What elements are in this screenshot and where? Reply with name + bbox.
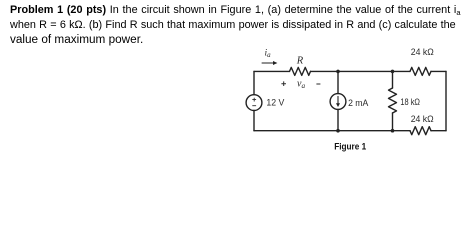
wire: 18k branch top stub xyxy=(392,71,394,88)
wire: top-left segment from source top to resistor R xyxy=(254,70,290,72)
resistor 18 kOhm (vertical zigzag) xyxy=(389,88,397,113)
svg-text:R: R xyxy=(296,56,304,67)
wire: top middle segment from R to node A and node B xyxy=(311,70,411,72)
wire: left side below voltage source xyxy=(253,111,255,131)
svg-text:Figure 1: Figure 1 xyxy=(334,142,366,152)
label: - polarity of v_a xyxy=(316,83,320,85)
wire: bottom-right corner segment xyxy=(431,130,446,132)
wire: left side above voltage source xyxy=(253,71,255,94)
problem statement text xyxy=(10,3,461,49)
svg-text:18 kΩ: 18 kΩ xyxy=(400,97,420,107)
wire: right vertical side xyxy=(445,71,447,130)
svg-text:va: va xyxy=(297,79,305,91)
wire: current source branch top stub xyxy=(337,71,339,93)
junction node B (top of 18k) xyxy=(391,70,395,74)
svg-text:24 kΩ: 24 kΩ xyxy=(411,114,434,124)
current source arrowhead xyxy=(336,103,340,107)
resistor 24 kOhm (bottom right, in bottom wire) xyxy=(410,127,431,135)
voltage source V1 12V (circle) xyxy=(246,95,262,111)
label: - polarity inside voltage source xyxy=(252,105,256,107)
svg-text:ia: ia xyxy=(265,49,272,60)
current source arrow (pointing down) xyxy=(337,96,339,103)
label: + polarity inside voltage source xyxy=(252,98,256,102)
label: + polarity of v_a xyxy=(281,81,286,86)
junction node D (bottom of 18k) xyxy=(391,129,395,133)
svg-text:24 kΩ: 24 kΩ xyxy=(411,47,434,57)
wire: bottom segment from bottom 24k to source bottom xyxy=(254,130,410,132)
resistor 24 kOhm (top right, in top wire) xyxy=(410,67,431,75)
svg-text:2 mA: 2 mA xyxy=(348,98,368,108)
wire: top-right corner segment xyxy=(431,70,446,72)
junction node C (bottom of current source) xyxy=(336,129,340,133)
i_a arrowhead xyxy=(273,61,277,65)
wire: 18k branch bottom stub xyxy=(392,113,394,131)
junction node A (top of current source) xyxy=(336,70,340,74)
current source I1 2mA (circle) xyxy=(330,94,346,110)
current arrow i_a (above top-left wire) xyxy=(262,62,274,64)
resistor R (zigzag in top wire) xyxy=(290,67,311,75)
wire: current source branch bottom stub xyxy=(337,109,339,130)
svg-text:12 V: 12 V xyxy=(266,98,284,108)
